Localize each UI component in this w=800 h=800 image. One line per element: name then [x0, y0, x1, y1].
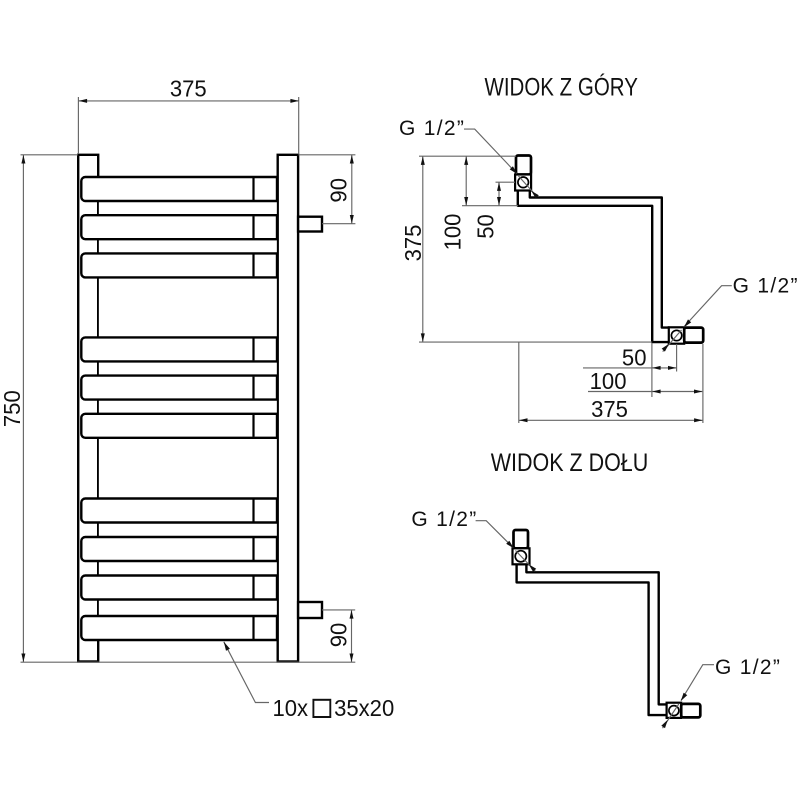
top connection stub [298, 217, 322, 232]
dim 90 bottom-right: lines [322, 610, 355, 662]
bottom view valve 2 body [681, 704, 700, 718]
bottom view valve 2 circle [669, 706, 679, 716]
dim 375 top: extension lines [78, 97, 299, 154]
left collector post [78, 155, 98, 662]
svg-text:90: 90 [325, 178, 352, 203]
top view valve 1 circle [518, 177, 529, 188]
svg-text:WIDOK Z DOŁU: WIDOK Z DOŁU [491, 448, 649, 476]
svg-text:G 1/2”: G 1/2” [411, 508, 477, 531]
top view 50 arrows [497, 182, 501, 191]
svg-text:375: 375 [399, 225, 426, 262]
rung end dividers [252, 178, 254, 639]
svg-text:375: 375 [591, 395, 628, 422]
right collector post [278, 155, 298, 662]
svg-text:WIDOK Z GÓRY: WIDOK Z GÓRY [485, 73, 638, 101]
svg-text:G 1/2”: G 1/2” [399, 117, 465, 140]
top view valve 2 square [669, 327, 684, 343]
label 10x square 35x20 [273, 694, 395, 721]
svg-text:10x: 10x [273, 694, 309, 721]
leader G 1/2 top-right [684, 286, 732, 327]
leader G 1/2 top-left [464, 129, 517, 174]
svg-text:50: 50 [472, 214, 499, 239]
top view left dims lines [419, 156, 652, 342]
50 bottom arrows [652, 366, 661, 370]
100 bottom arrows [652, 390, 661, 394]
top view 375 arrows [421, 156, 425, 165]
bottom view valve 2 square [667, 703, 682, 718]
svg-text:100: 100 [590, 368, 627, 395]
leader 10x 35x20 [224, 642, 269, 703]
top view bottom dims lines [519, 342, 703, 423]
svg-text:100: 100 [439, 214, 466, 251]
bottom view valve 1 body [514, 530, 529, 548]
top view valve 2 body [684, 328, 703, 343]
dim 750 left: lines [21, 155, 356, 662]
svg-text:375: 375 [170, 75, 207, 102]
375 bottom arrows [519, 418, 528, 422]
top view valve 1 square [515, 175, 531, 191]
top view 100 arrows [464, 156, 468, 165]
top view valve 2 circle [671, 330, 681, 340]
back panel bands [98, 201, 278, 616]
bottom view valve 1 circle [515, 551, 526, 562]
svg-text:G 1/2”: G 1/2” [715, 656, 781, 679]
svg-text:90: 90 [325, 623, 352, 648]
leader G 1/2 bottom-left [476, 521, 514, 548]
svg-text:750: 750 [0, 390, 25, 427]
top view pipe (Z-shaped) [518, 190, 670, 342]
bottom connection stub [298, 602, 322, 618]
svg-text:G 1/2”: G 1/2” [733, 275, 799, 298]
bottom view valve 1 square [513, 548, 530, 564]
dim 375 top arrows [79, 99, 88, 103]
dim 750 arrows [21, 155, 25, 164]
svg-text:35x20: 35x20 [334, 694, 394, 721]
leader G 1/2 bottom-right [681, 665, 714, 701]
10 flat rungs 35x20 [81, 177, 277, 640]
dim 90 top-right: lines [298, 155, 355, 224]
bottom view pipe (Z-shaped) [517, 564, 667, 715]
top view valve 1 body [516, 156, 531, 175]
